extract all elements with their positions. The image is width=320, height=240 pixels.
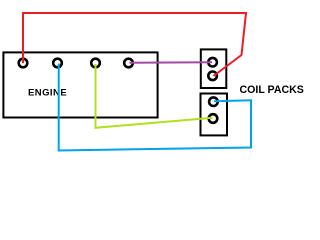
coil pack 2 (bottom) — [201, 94, 228, 136]
coil pack 2 terminal B — [209, 114, 218, 123]
coil pack 1 terminal B — [208, 72, 217, 81]
wire red: engine terminal 1 to coil pack 1 terminal B — [23, 13, 246, 76]
svg-text:ENGINE: ENGINE — [28, 88, 67, 99]
engine terminal 1 — [19, 59, 28, 68]
engine terminal 4 — [124, 59, 133, 68]
wire purple: engine terminal 4 to coil pack 1 terminal A — [130, 61, 213, 64]
coil pack 2 terminal A — [209, 97, 218, 106]
coil pack 1 (top) — [201, 49, 227, 88]
svg-text:COIL PACKS: COIL PACKS — [240, 84, 304, 96]
wire green: engine terminal 3 to coil pack 2 terminal B — [96, 64, 213, 128]
coil pack 1 terminal A — [208, 58, 217, 67]
engine block — [3, 52, 157, 117]
engine terminal 2 — [53, 59, 62, 68]
engine terminal 3 — [91, 59, 100, 68]
wire blue: engine terminal 2 to coil pack 2 terminal A — [59, 64, 251, 151]
